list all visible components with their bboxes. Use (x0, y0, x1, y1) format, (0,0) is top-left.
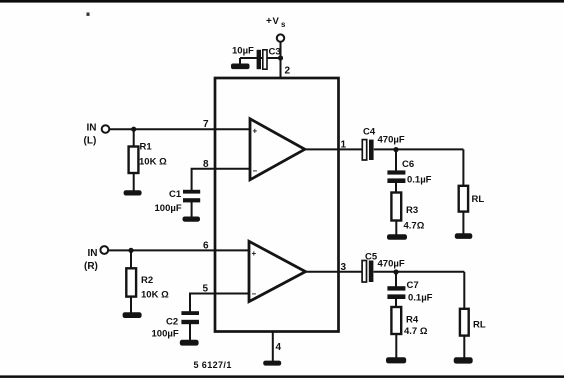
+Vs terminal (277, 34, 284, 41)
wire C1 ground stem (191, 202, 193, 218)
svg-text:+: + (252, 249, 257, 258)
wire R2 bottom stem (130, 297, 132, 313)
wire pin 4 to ground (272, 332, 274, 362)
ground (RL L) (455, 233, 473, 239)
capacitor C7 plates (387, 286, 405, 299)
svg-text:2: 2 (285, 66, 291, 77)
capacitor C3 plates (257, 50, 267, 69)
capacitor C4 plates (362, 140, 373, 160)
svg-text:4: 4 (276, 342, 282, 353)
wire C6 to R3 (395, 183, 397, 193)
wire down to RL (L) (462, 149, 464, 186)
wire R2 top stem (130, 250, 132, 269)
svg-text:100µF: 100µF (155, 203, 182, 214)
wire C5 to RL branch (374, 271, 465, 273)
wire A1 output to C4 (pin 1) (305, 148, 363, 150)
resistor R3 (391, 193, 401, 221)
IN (R) label (84, 248, 98, 272)
svg-text:C4: C4 (363, 127, 376, 138)
wire RL (R) ground stem (463, 336, 465, 358)
node junction IN L / R1 (131, 127, 136, 132)
op-amp A2 (249, 241, 306, 301)
IN L terminal (102, 125, 110, 133)
svg-text:4.7Ω: 4.7Ω (404, 221, 425, 232)
wire C7 stem (395, 272, 397, 287)
resistor R2 (126, 268, 136, 296)
top border bar (0, 0, 564, 3)
wire A2 output to C5 (pin 3) (306, 271, 363, 273)
svg-text:C2: C2 (166, 317, 178, 328)
wire C6 stem (395, 150, 397, 171)
wire R1 bottom stem (133, 173, 135, 191)
svg-text:5 6127/1: 5 6127/1 (194, 360, 232, 370)
capacitor C2 plates (181, 311, 199, 324)
node junction C3/Vs (278, 55, 283, 60)
speck artifact (87, 13, 90, 16)
svg-text:R2: R2 (141, 275, 153, 286)
svg-text:+: + (266, 16, 272, 27)
ground (C3) (231, 64, 250, 70)
wire pin 8 to A1 - input (192, 169, 250, 190)
ground (RL R) (454, 357, 473, 363)
ground (R2) (123, 312, 142, 318)
svg-text:C3: C3 (269, 47, 281, 58)
svg-text:R3: R3 (406, 205, 418, 216)
svg-text:0.1µF: 0.1µF (408, 293, 433, 304)
svg-text:RL: RL (472, 194, 485, 205)
ground (pin 4) (263, 361, 281, 366)
wire R4 ground stem (395, 334, 397, 358)
svg-text:(L): (L) (84, 136, 97, 147)
svg-text:C5: C5 (365, 252, 378, 263)
ground (R4) (386, 357, 406, 363)
capacitor C1 plates (183, 190, 200, 203)
IN R terminal (100, 246, 108, 254)
op-amp A1 (250, 119, 305, 180)
svg-text:5: 5 (203, 284, 209, 295)
wire R3 ground stem (395, 221, 397, 236)
svg-text:R4: R4 (406, 315, 419, 326)
ground (R1) (124, 190, 142, 195)
svg-text:IN: IN (88, 248, 98, 259)
svg-text:IN: IN (87, 123, 97, 134)
ground (R3) (387, 234, 407, 240)
resistor R4 (391, 307, 401, 334)
wire C3 ground stem (239, 58, 241, 65)
svg-text:−: − (253, 167, 258, 176)
svg-text:+: + (253, 127, 258, 136)
ground (C1) (183, 217, 201, 222)
IN (L) label (84, 123, 97, 147)
svg-text:100µF: 100µF (152, 329, 179, 340)
svg-text:C1: C1 (169, 189, 182, 200)
node junction IN R / R2 (128, 248, 133, 253)
ground (C2) (180, 340, 199, 346)
svg-text:470µF: 470µF (378, 259, 405, 270)
resistor RL (L) (459, 186, 468, 212)
wire C3 to Vs node (240, 57, 281, 59)
wire IN R to A2 + input (pin 6) (109, 249, 250, 251)
svg-text:s: s (281, 20, 286, 29)
bottom border bar (0, 375, 564, 378)
svg-text:470µF: 470µF (378, 135, 405, 146)
svg-text:0.1µF: 0.1µF (407, 175, 432, 186)
svg-text:C7: C7 (407, 280, 419, 291)
node junction C5/C7 (393, 269, 398, 274)
svg-text:V: V (273, 16, 280, 27)
wire R1 top stem (133, 129, 135, 147)
capacitor C6 plates (387, 170, 405, 183)
wire C2 ground stem (189, 324, 191, 341)
svg-text:3: 3 (341, 262, 347, 273)
wire C4 to RL branch (374, 148, 464, 150)
wire IN L to A1 + input (pin 7) (110, 128, 251, 130)
wire down to RL (R) (463, 272, 465, 310)
wire Vs terminal to pin 2 (280, 42, 282, 78)
svg-text:1: 1 (341, 140, 347, 151)
svg-text:8: 8 (203, 159, 209, 170)
svg-text:(R): (R) (84, 261, 98, 272)
svg-text:C6: C6 (402, 159, 414, 170)
node junction C4/C6 (393, 147, 398, 152)
svg-text:10µF: 10µF (232, 46, 254, 57)
svg-text:R1: R1 (140, 142, 153, 153)
svg-text:10K Ω: 10K Ω (141, 290, 169, 301)
svg-text:RL: RL (473, 320, 486, 331)
svg-text:10K Ω: 10K Ω (139, 157, 167, 168)
+Vs label (266, 16, 286, 29)
wire RL (L) ground stem (462, 212, 464, 234)
svg-text:7: 7 (203, 119, 209, 130)
wire pin 5 to A2 - input (190, 294, 249, 312)
capacitor C5 plates (362, 261, 373, 283)
svg-text:6: 6 (203, 241, 209, 252)
IC U1 outline (215, 78, 339, 332)
svg-text:4.7 Ω: 4.7 Ω (404, 326, 428, 337)
svg-text:−: − (252, 290, 257, 299)
resistor R1 (129, 147, 139, 174)
resistor RL (R) (460, 309, 469, 336)
wire C7 to R4 (395, 299, 397, 308)
